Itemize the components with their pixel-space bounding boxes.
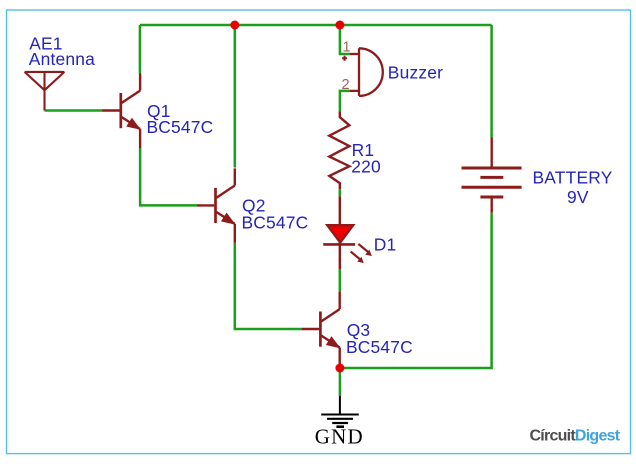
svg-text:BC547C: BC547C: [242, 213, 309, 233]
LED light arrow upper: [358, 244, 371, 256]
wire Q3 emitter to ground: [339, 367, 342, 396]
svg-text:GND: GND: [315, 425, 364, 449]
wire Q2 emitter to Q3 base: [235, 243, 302, 329]
wire top rail: [140, 24, 492, 27]
svg-text:D1: D1: [374, 235, 397, 255]
ground symbol: [321, 396, 359, 427]
wire buzzer pin 1: [340, 25, 350, 54]
resistor R1: [329, 111, 349, 189]
battery BAT1: [462, 138, 522, 213]
svg-text:BC547C: BC547C: [147, 117, 214, 137]
svg-text:Antenna: Antenna: [29, 49, 95, 69]
LED D1: [323, 196, 355, 269]
svg-text:BC547C: BC547C: [346, 337, 413, 357]
antenna AE1: [25, 72, 65, 111]
svg-text:Buzzer: Buzzer: [388, 63, 443, 83]
transistor Q3: [302, 292, 341, 367]
buzzer pin 2 lead: [350, 90, 359, 92]
svg-text:2: 2: [342, 77, 350, 93]
junction node rail-Q2: [230, 21, 239, 30]
wire battery plus to top rail: [490, 25, 493, 138]
svg-text:1: 1: [343, 39, 351, 55]
wire LED to Q3 collector: [339, 269, 342, 292]
wire buzzer pin 2 to R1: [340, 91, 350, 111]
wire Q1 collector drop: [139, 25, 142, 74]
buzzer body: [359, 48, 383, 96]
wire antenna to Q1 base: [45, 109, 103, 112]
svg-text:CírcuitDigest: CírcuitDigest: [530, 427, 621, 444]
svg-text:9V: 9V: [567, 187, 589, 207]
svg-text:220: 220: [351, 156, 381, 176]
wire Q2 collector drop: [234, 25, 237, 168]
svg-text:BATTERY: BATTERY: [533, 167, 613, 187]
wire ground node to battery minus: [340, 213, 492, 368]
buzzer pin 1 lead: [350, 53, 359, 55]
junction node emitter-ground: [335, 364, 344, 373]
junction node rail-buzzer: [335, 21, 344, 30]
wire Q1 emitter to Q2 base: [140, 148, 197, 205]
transistor Q1: [102, 74, 141, 149]
transistor Q2: [197, 168, 236, 243]
LED light arrow lower: [351, 252, 364, 264]
buzzer plus mark: [342, 56, 347, 61]
wire R1 to LED: [339, 189, 342, 196]
